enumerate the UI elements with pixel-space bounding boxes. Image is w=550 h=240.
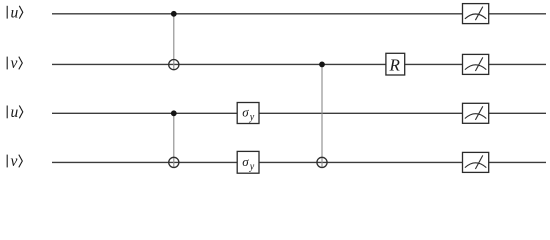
- svg-text:v: v: [11, 55, 18, 72]
- gate sigma_y on qubit 3: [237, 103, 259, 124]
- qubit label |u> (line 1): [7, 4, 23, 21]
- CNOT3 target XOR on qubit 4: [317, 157, 327, 167]
- gate sigma_y on qubit 4: [237, 151, 259, 173]
- measurement meter M1 on qubit 1: [463, 4, 489, 24]
- CNOT1 target XOR on qubit 2: [169, 60, 179, 70]
- measurement meter M4 on qubit 4: [463, 152, 489, 172]
- wire CNOT3 vertical connector: [321, 64, 323, 167]
- wire CNOT1 vertical connector: [173, 14, 175, 70]
- qubit label |v> (line 2): [7, 55, 22, 72]
- qubit label |u> (line 3): [7, 104, 23, 121]
- qubit label |v> (line 4): [7, 153, 22, 170]
- wire qubit 1: [52, 13, 546, 15]
- measurement meter M3 on qubit 3: [463, 103, 489, 123]
- svg-text:u: u: [11, 104, 19, 121]
- svg-text:σ: σ: [242, 105, 249, 120]
- gate R on qubit 2: [386, 53, 405, 75]
- svg-text:R: R: [389, 56, 401, 75]
- wire qubit 3: [52, 112, 546, 114]
- CNOT2 target XOR on qubit 4: [169, 157, 179, 167]
- wire qubit 2: [52, 63, 546, 65]
- measurement meter M2 on qubit 2: [463, 54, 489, 74]
- CNOT2 control dot on qubit 3: [171, 110, 177, 116]
- svg-text:y: y: [249, 162, 255, 173]
- wire qubit 4: [52, 161, 546, 163]
- CNOT1 control dot on qubit 1: [171, 11, 177, 17]
- svg-text:v: v: [11, 153, 18, 170]
- CNOT3 control dot on qubit 2: [319, 62, 325, 68]
- svg-text:σ: σ: [242, 154, 249, 169]
- wire CNOT2 vertical connector: [173, 113, 175, 167]
- svg-text:u: u: [11, 4, 19, 21]
- svg-text:y: y: [249, 112, 255, 123]
